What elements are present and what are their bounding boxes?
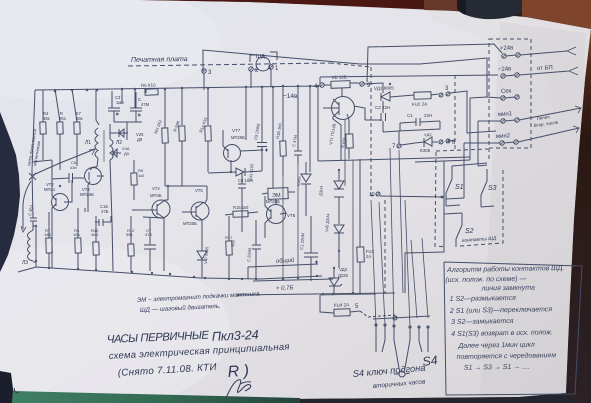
cap drop to diode [126, 122, 128, 133]
dark object top [424, 0, 460, 11]
svg-text:МП25Б: МП25Б [266, 199, 280, 204]
dashed PCB boundary vertical far right [454, 75, 456, 150]
resistor R1B 1K0 [280, 141, 287, 156]
terminal circle slashes [500, 53, 520, 145]
svg-text:47Б: 47Б [101, 209, 109, 214]
diode chain second [334, 225, 344, 233]
capacitor C8 16M [238, 178, 246, 194]
svg-text:Д9: Д9 [124, 151, 130, 156]
svg-text:S3: S3 [488, 185, 497, 192]
svg-text:VТ5: VТ5 [195, 188, 203, 193]
svg-text:R ): R ) [227, 363, 249, 381]
wire min2 left [464, 142, 500, 144]
svg-text:Печатная плата: Печатная плата [131, 56, 188, 64]
bus left tail [18, 267, 36, 272]
switch S1 [446, 166, 452, 206]
svg-text:мин1: мин1 [498, 111, 513, 118]
capacitor C 47M mid [294, 147, 302, 163]
transformer L1 coil [95, 128, 98, 158]
svg-text:1к0: 1к0 [138, 173, 145, 178]
svg-text:ДЗИ4: ДЗИ4 [318, 185, 324, 196]
pin 1 circle [269, 65, 273, 69]
top bus -14v [35, 86, 319, 90]
VT7 column C9 [261, 87, 263, 171]
wire vt3 base [52, 178, 84, 179]
wires dropping to S4 row [371, 200, 376, 325]
terminal +24v link [506, 55, 516, 56]
coil L3 [28, 232, 31, 260]
dashed link below terminal box [436, 149, 488, 151]
right dark band [563, 29, 591, 403]
svg-text:С1: С1 [407, 113, 413, 118]
wire from cross down to coil [23, 181, 31, 229]
junction dots right [333, 83, 451, 269]
resistor R9 1k0 [131, 173, 137, 185]
pin 3 wire down [203, 73, 205, 90]
wire x283 к bus [282, 176, 284, 279]
algorithm box [444, 262, 582, 395]
green strip bottom left [12, 391, 300, 403]
switch area outer rect left [405, 161, 444, 293]
paper bright spot bottom left [0, 245, 230, 403]
wire pin6 right [450, 140, 455, 141]
paper shade band near right edge [480, 22, 586, 398]
wire left col [32, 160, 52, 162]
svg-text:линия замкнута: линия замкнута [480, 285, 535, 293]
svg-text:43п: 43п [70, 165, 77, 170]
switch area top wire [444, 160, 470, 161]
C8 wires [241, 172, 243, 232]
pin 9 circle [360, 82, 364, 86]
resistor R7 18B bottom [46, 238, 53, 253]
capacitor C 47M top [130, 92, 142, 122]
capacitor C16 47B [95, 219, 108, 226]
S4 outer contact wires [375, 325, 377, 352]
pin 7 circle [397, 144, 401, 148]
wire x353 vertical [352, 160, 354, 293]
svg-text:R17: R17 [225, 235, 233, 240]
pin 3b circles [439, 93, 443, 97]
svg-text:(исх. полож. по схеме) —: (исх. полож. по схеме) — [445, 276, 527, 284]
svg-text:22Н: 22Н [424, 113, 432, 118]
pin 3 circle [202, 69, 206, 73]
dark left edge notch [0, 112, 20, 272]
diode V43 K105 [236, 168, 245, 176]
bus dots [237, 292, 355, 297]
paper corner mark [14, 388, 19, 393]
S4 actuator circle [399, 371, 405, 377]
paper bright top left [0, 0, 220, 100]
resistor R17 5B5 [226, 241, 232, 255]
switch S2 [456, 213, 462, 247]
svg-text:МП25Б: МП25Б [231, 135, 245, 140]
resistor R4 36K [40, 122, 46, 134]
svg-text:47М: 47М [141, 102, 150, 107]
capacitor C 256M bottom [252, 220, 261, 279]
capacitor C2 22H [381, 113, 386, 121]
bottom bus left [36, 267, 322, 279]
EM electromagnet box [268, 188, 288, 200]
coupling arrow through L1 [33, 149, 95, 175]
D9 wires [305, 162, 307, 216]
diode VD7 K105 [197, 251, 207, 260]
motor SD side hooks [250, 55, 257, 62]
svg-text:Л3: Л3 [22, 260, 28, 266]
cap joining wire [114, 121, 142, 123]
left coil C cap [30, 212, 37, 226]
bottom bus junction dots [48, 267, 318, 280]
transformer L2 coil [110, 139, 113, 160]
algorithm text [445, 264, 566, 372]
dashed PCB boundary vertical right [370, 67, 372, 196]
bottom bus drop from L3 [35, 261, 37, 267]
maroon strip top [140, 0, 460, 11]
lower bus y295 [238, 293, 395, 295]
svg-text:VД3: VД3 [339, 267, 348, 272]
resistor RH 2K2 [162, 128, 169, 143]
wire pin9 to +24 terminal [367, 44, 502, 82]
svg-text:МП25Б: МП25Б [183, 221, 197, 226]
terminal min1 circles [501, 119, 505, 123]
svg-text:Д9: Д9 [137, 137, 143, 142]
diode V4A D9 [113, 149, 121, 157]
bottom dark strip [295, 393, 575, 403]
diode D9 col [301, 174, 311, 184]
svg-text:4М1: 4М1 [91, 232, 100, 237]
transformer core line [103, 130, 105, 162]
fuse FU2 2A [414, 92, 431, 100]
svg-text:S1 → S3 → S1 → ....: S1 → S3 → S1 → .... [464, 364, 530, 372]
svg-text:Далее через 1мин цикл: Далее через 1мин цикл [457, 342, 535, 350]
svg-text:К405: К405 [296, 176, 302, 186]
resistor R 56K mid [179, 126, 186, 141]
resistor R7 56K [74, 122, 80, 134]
link dot [167, 185, 169, 187]
transistor VT7 MP25B [224, 145, 241, 162]
svg-text:+ 0,7Б: + 0,7Б [276, 285, 294, 292]
svg-text:5б1: 5б1 [126, 232, 134, 237]
resistor R10 bottom [93, 242, 99, 255]
svg-text:VД1 К805: VД1 К805 [374, 85, 395, 91]
wire +24 arrow out [520, 51, 567, 55]
EM wires [262, 192, 295, 194]
L3 wires [30, 226, 36, 262]
transistor VT5 [191, 202, 209, 220]
pin10 wire dot [441, 196, 444, 199]
dashed PCB boundary top right [330, 63, 371, 67]
capacitor C7 47B bottom [144, 218, 156, 271]
resistor R6 K10 horizontal [145, 89, 158, 95]
switch block inner wires [452, 163, 487, 166]
svg-text:Пкл3-24: Пкл3-24 [211, 327, 258, 344]
wire pin9 to VD1 [364, 83, 383, 93]
svg-text:36к: 36к [43, 116, 50, 121]
transistor VT6 MP25B [267, 205, 286, 224]
svg-text:−14в: −14в [283, 93, 298, 100]
resistor R15 1K0 horizontal [233, 211, 248, 218]
resistor R8 12E [331, 81, 350, 89]
svg-text:3 S2—замыкается: 3 S2—замыкается [451, 318, 514, 326]
svg-text:2А: 2А [366, 254, 371, 259]
resistor R K51 [346, 134, 353, 148]
wire min1 arrow out [519, 108, 581, 120]
dashed wire at pin10 [371, 195, 376, 196]
pin 2 circle [249, 67, 253, 71]
pin 5 circle [393, 316, 397, 320]
svg-text:Сек: Сек [501, 88, 512, 95]
svg-text:5Б5: 5Б5 [230, 239, 236, 247]
svg-text:10: 10 [369, 192, 375, 198]
left drop wires from top bus [32, 90, 35, 218]
diode chain top x339 [334, 181, 344, 197]
bus junction dots [54, 85, 320, 93]
svg-text:мин2: мин2 [496, 133, 511, 140]
capacitor C3 1m0 [108, 91, 120, 122]
svg-text:FU4 2А: FU4 2А [334, 302, 350, 308]
svg-text:S2: S2 [465, 228, 474, 235]
pin 10 circle [376, 192, 380, 196]
V43 wires [208, 171, 262, 173]
svg-text:VД2: VД2 [424, 132, 432, 137]
svg-text:Л1: Л1 [85, 140, 91, 146]
pin 1 wire down [270, 69, 272, 87]
transistor VT3 MP26B [85, 168, 102, 185]
obshiy wire [248, 264, 318, 267]
diode V26 leads [126, 133, 128, 140]
svg-text:ШД: ШД [256, 54, 265, 60]
diode VD1 K805 [381, 92, 390, 101]
VT1 right link [354, 106, 382, 120]
wire mid horizontal y160 [318, 157, 470, 161]
terminal sek circles [501, 96, 505, 100]
svg-text:С8 1бМ: С8 1бМ [238, 178, 253, 183]
wire pin3b to terminals [450, 91, 496, 133]
wire x298 down [297, 163, 299, 278]
L2 top lead [110, 124, 119, 139]
resistor R12 bottom [128, 244, 134, 256]
svg-text:К305: К305 [420, 148, 431, 153]
motor SD leads [254, 69, 258, 70]
svg-text:VТ7: VТ7 [232, 128, 241, 133]
dashed PCB boundary line top [128, 63, 330, 66]
fuse FU3 2A [357, 247, 365, 262]
terminal -24v circles [501, 74, 505, 78]
dashed box switches [460, 170, 503, 246]
coupling arrow tail cross [29, 173, 36, 180]
VT7 junction dots [230, 149, 263, 173]
svg-text:МП41: МП41 [44, 187, 56, 192]
terminal min2 circles [500, 141, 504, 145]
dashed wire to pin5 [360, 311, 395, 317]
capacitor C1 220M [304, 216, 318, 281]
diode V26 D9 [119, 129, 128, 137]
pin 6 circles [439, 140, 443, 144]
svg-text:S1: S1 [455, 184, 464, 191]
svg-text:С2 22Н: С2 22Н [375, 105, 390, 110]
paper subtle shade right [430, 9, 591, 150]
junction dots left [35, 185, 61, 262]
S4 row dots [374, 323, 429, 328]
resistor R5 2K1 [57, 122, 63, 134]
dark object body [457, 0, 524, 19]
motor SD circle [256, 57, 270, 71]
resistor R3 bottom [75, 238, 82, 253]
transistor VT2 MP41 [52, 194, 69, 211]
pin 2 wire down [250, 71, 252, 88]
diode VD2 K305 [424, 137, 432, 147]
wire min1 drop [477, 121, 479, 166]
terminal block dashed box [489, 39, 531, 148]
svg-text:общий: общий [276, 257, 296, 265]
transistor VT1 P214V [332, 97, 355, 120]
svg-text:18Б: 18Б [44, 232, 51, 237]
svg-text:от БП: от БП [537, 65, 553, 72]
terminal +24v circles [502, 54, 506, 58]
S4 moving contacts [394, 326, 399, 368]
pin10 wire right to switch block [380, 196, 442, 197]
wire sek horizontal [470, 97, 487, 98]
svg-text:Л2: Л2 [116, 140, 122, 146]
svg-text:Д226: Д226 [338, 273, 348, 278]
svg-text:1 S2—размыкается: 1 S2—размыкается [450, 295, 517, 303]
pin 4 circle [320, 83, 324, 87]
wire top link S4 [320, 294, 376, 295]
svg-text:R15 1к0: R15 1к0 [233, 205, 249, 210]
wire sek down to switch block [469, 98, 471, 160]
svg-text:+24в: +24в [500, 45, 514, 52]
wire VT2 emitter to bus [51, 238, 53, 268]
svg-text:1бЬ: 1бЬ [73, 232, 81, 237]
svg-text:−24в: −24в [498, 66, 512, 73]
pin circle slashes [202, 65, 450, 320]
capacitor C9 256M bars [257, 143, 268, 152]
svg-text:VТ6: VТ6 [287, 213, 296, 218]
dashed left edge of switch box [435, 152, 445, 247]
switch S3 [481, 169, 487, 207]
wire to -24 terminal [320, 75, 498, 77]
wire pin3 to Sek long line [203, 50, 501, 98]
capacitor C1 22H [416, 118, 420, 126]
transformer bottom leads [97, 158, 98, 167]
svg-text:МП4Б: МП4Б [150, 193, 162, 198]
pin 7 wire [398, 121, 440, 145]
signature [226, 380, 251, 398]
zener VD3 D226 [329, 278, 342, 286]
wire min2 drop [463, 143, 465, 198]
wire c16 [108, 216, 111, 222]
transistor VT4 MP26 [152, 200, 170, 218]
wire min2 arrow out [518, 128, 579, 142]
svg-text:КЕ 12Е: КЕ 12Е [332, 74, 347, 80]
wire vt4 vt5 link [165, 185, 207, 187]
wire -24 drop to bus [319, 77, 321, 86]
svg-text:2К1: 2К1 [59, 116, 67, 121]
wires down from switch block [411, 240, 417, 318]
wire VT3 emitter down [84, 208, 86, 212]
svg-text:VТ4: VТ4 [152, 186, 160, 191]
wire x345 vertical [344, 120, 346, 186]
svg-text:FU2 2А: FU2 2А [412, 101, 427, 107]
svg-text:47Б: 47Б [145, 232, 152, 237]
resistor R14 K33 [205, 126, 212, 141]
svg-text:56к: 56к [76, 116, 83, 121]
wire -24 arrow out [519, 71, 569, 75]
rust top right [522, 0, 591, 29]
svg-text:1м0: 1м0 [116, 100, 124, 105]
svg-text:МП26Б: МП26Б [80, 192, 94, 197]
+0.7B wire [253, 279, 333, 281]
fuse FU4 2A [334, 309, 350, 317]
wire min1 left [478, 120, 501, 122]
navy block bottom left [0, 371, 13, 403]
S4 contact row wire [373, 316, 430, 319]
dark object shadow edge [457, 0, 466, 15]
svg-text:R6 К10: R6 К10 [141, 82, 156, 88]
capacitor C5 43n [69, 173, 73, 183]
